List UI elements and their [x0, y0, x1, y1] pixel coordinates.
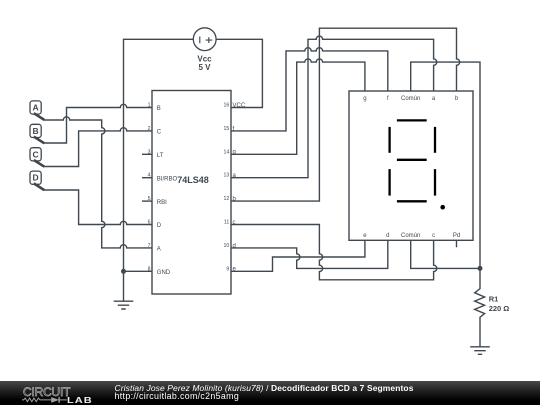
svg-text:Pd: Pd [453, 233, 460, 239]
svg-text:Vcc: Vcc [197, 54, 212, 63]
wire net d (U1 pin 10 to display d) [231, 240, 388, 268]
svg-text:15: 15 [224, 126, 230, 132]
svg-text:6: 6 [148, 220, 151, 226]
wire display Comun top to R1 node [411, 62, 480, 268]
svg-text:D: D [157, 223, 162, 229]
svg-text:8: 8 [148, 266, 151, 272]
display segments (digit 8) [390, 120, 435, 201]
node B input flag [30, 124, 44, 143]
svg-text:R1: R1 [489, 295, 499, 304]
svg-text:g: g [233, 150, 236, 156]
wire net A (flag A to U1 pin 7) [44, 117, 152, 248]
svg-text:9: 9 [226, 266, 229, 272]
svg-text:C: C [157, 130, 162, 136]
ground (left, under U1) [114, 301, 134, 309]
svg-text:Común: Común [401, 233, 420, 239]
svg-text:c: c [233, 220, 236, 226]
wire net b (U1 pin 12 to display b) [231, 28, 460, 201]
voltage source V1 Vcc 5V [193, 28, 216, 51]
junction Comun / R1 [478, 266, 483, 271]
pin stub display Pd [456, 240, 458, 247]
svg-text:d: d [233, 243, 236, 249]
svg-text:c: c [432, 233, 435, 239]
svg-text:BI/RBO: BI/RBO [157, 176, 178, 182]
footer credits text [115, 384, 414, 400]
svg-text:C: C [33, 149, 39, 159]
wire net B (flag B to U1 pin 1) [44, 104, 152, 143]
svg-text:A: A [157, 247, 161, 253]
node A input flag [30, 101, 44, 120]
svg-text:B: B [157, 106, 161, 112]
svg-text:74LS48: 74LS48 [177, 175, 209, 185]
resistor R1 220 ohm [475, 268, 485, 346]
svg-text:g: g [363, 96, 366, 102]
svg-text:Común: Común [401, 96, 420, 102]
svg-text:VCC: VCC [233, 103, 246, 109]
wire U1 pin 8 GND to rail [124, 270, 153, 272]
ground (under R1) [470, 347, 490, 355]
junction GND rail / U1 pin 8 [121, 269, 126, 274]
wire net c (U1 pin 11 to display c) [231, 225, 437, 280]
svg-text:e: e [363, 233, 367, 239]
pin stub U1 pin 5 RBI [142, 200, 152, 202]
wire V1 positive to U1 pin 16 VCC [216, 39, 263, 107]
7-segment display body [349, 91, 473, 240]
wire V1 negative to ground rail [124, 39, 194, 301]
svg-text:a: a [432, 96, 436, 102]
IC U1 74LS48 body [152, 91, 231, 295]
wire net C (flag C to U1 pin 2) [44, 128, 152, 167]
svg-text:LT: LT [157, 153, 164, 159]
wire net g (U1 pin 14 to display g) [231, 59, 365, 154]
svg-text:d: d [386, 233, 389, 239]
svg-text:D: D [33, 173, 39, 183]
node C input flag [30, 148, 44, 167]
svg-text:3: 3 [148, 149, 151, 155]
svg-text:RBI: RBI [157, 200, 167, 206]
svg-text:4: 4 [148, 173, 151, 179]
svg-text:A: A [33, 103, 39, 113]
CircuitLab logo [22, 381, 102, 405]
svg-text:2: 2 [148, 126, 151, 132]
footer bar [0, 381, 540, 405]
wire net e (U1 pin 9 to display e) [231, 240, 365, 271]
svg-text:11: 11 [224, 220, 229, 226]
svg-text:1: 1 [148, 103, 151, 109]
svg-text:f: f [387, 96, 389, 102]
wire net D (flag D to U1 pin 6) [44, 190, 152, 225]
svg-text:5 V: 5 V [198, 63, 211, 72]
svg-text:14: 14 [224, 149, 230, 155]
svg-text:GND: GND [157, 270, 171, 276]
svg-text:16: 16 [224, 103, 230, 109]
pin stub U1 pin 4 BI/RBO [142, 177, 152, 179]
svg-text:220 Ω: 220 Ω [489, 304, 510, 313]
svg-text:5: 5 [148, 196, 151, 202]
svg-text:b: b [455, 96, 459, 102]
wire net f (U1 pin 15 to display f) [231, 48, 388, 131]
svg-text:7: 7 [148, 243, 151, 249]
wire display Comun bottom to R1 node [411, 240, 480, 268]
svg-text:10: 10 [224, 243, 230, 249]
svg-text:13: 13 [224, 173, 230, 179]
svg-text:B: B [33, 126, 39, 136]
display decimal point [440, 205, 445, 210]
wire net a (U1 pin 13 to display a) [231, 36, 437, 178]
svg-text:12: 12 [224, 196, 230, 202]
pin stub U1 pin 3 LT [142, 153, 152, 155]
node D input flag [30, 171, 44, 190]
